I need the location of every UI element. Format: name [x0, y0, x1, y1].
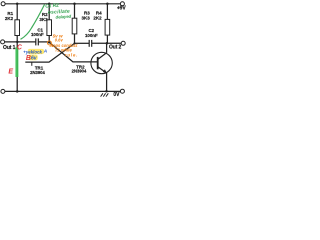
wire Out1 to C1 [5, 41, 36, 43]
svg-text:2K2: 2K2 [93, 15, 102, 20]
svg-text:3K3: 3K3 [39, 17, 48, 22]
terminal Out 1 [1, 40, 5, 44]
svg-text:A: A [43, 48, 47, 53]
svg-text:Out 2: Out 2 [109, 45, 122, 51]
svg-text:0V: 0V [113, 92, 120, 98]
resistor R2 [47, 20, 52, 36]
capacitor C1 [36, 38, 39, 45]
svg-text:E: E [8, 69, 13, 76]
svg-text:2N3904: 2N3904 [72, 69, 87, 74]
svg-text:+9V: +9V [117, 6, 127, 12]
node X2 junction [73, 42, 75, 44]
node bottom rail TR1 emitter [16, 90, 19, 93]
TR1 base tick [31, 62, 33, 66]
svg-text:delayed: delayed [55, 14, 71, 20]
svg-text:2K2: 2K2 [5, 16, 14, 21]
svg-text:3K3: 3K3 [82, 15, 91, 20]
terminal Out 2 [121, 41, 125, 45]
wire TR2 collector lead [106, 43, 108, 53]
wire C2 to Out2 [92, 42, 122, 44]
svg-text:2N3904: 2N3904 [30, 70, 45, 75]
node Out1 junction [16, 41, 19, 44]
orange ring around node X1 [47, 41, 51, 45]
svg-text:100nF: 100nF [31, 32, 44, 37]
terminal top-left [1, 2, 5, 6]
wire bottom 0V rail [5, 90, 121, 92]
wire R2 bottom lead [48, 36, 50, 43]
green annotation arrow [21, 5, 45, 40]
yellow highlight 2 [29, 55, 38, 61]
wire top +9V rail [5, 3, 120, 5]
node top rail R2 [48, 3, 51, 6]
svg-text:0.6v: 0.6v [55, 37, 64, 42]
terminal bottom-right [120, 89, 124, 93]
svg-text:+yeklock: +yeklock [23, 50, 42, 55]
wire R2 top lead [48, 4, 50, 20]
wire R4 bottom lead [106, 35, 108, 43]
node top rail R4 [106, 3, 109, 6]
wire TR1 collector-emitter line [16, 36, 18, 92]
svg-text:rule.: rule. [65, 53, 79, 58]
wire C1 to node X1 [38, 41, 49, 43]
orange ring tail [51, 45, 53, 47]
node X1 junction [48, 41, 51, 44]
wire TR2 base lead crossing [49, 42, 97, 62]
wire R3 bottom lead [74, 34, 76, 44]
green marker highlight TR1 C-E path [15, 47, 18, 77]
wire node X2 to C2 [75, 42, 90, 44]
wire R1 top lead [16, 4, 18, 20]
svg-text:100nF: 100nF [85, 33, 98, 38]
wire R3 top lead [74, 4, 76, 18]
node top rail R3 [73, 3, 76, 6]
wire TR1 base lead [25, 43, 74, 62]
terminal bottom-left [1, 89, 5, 93]
node Out2 junction [106, 42, 109, 45]
node bottom rail TR2 emitter [105, 90, 108, 93]
transistor TR2 [91, 52, 112, 73]
capacitor C2 [89, 40, 92, 47]
yellow highlight 1 [28, 49, 44, 54]
ground [101, 93, 109, 96]
resistor R3 [72, 18, 77, 34]
resistor R1 [15, 20, 20, 36]
terminal +9V top-right [120, 2, 124, 6]
node top rail R1 [16, 3, 19, 6]
svg-text:Out 1: Out 1 [3, 45, 16, 51]
wire TR2 emitter lead [106, 73, 108, 91]
resistor R4 [105, 19, 110, 35]
wire R4 top lead [106, 4, 108, 20]
